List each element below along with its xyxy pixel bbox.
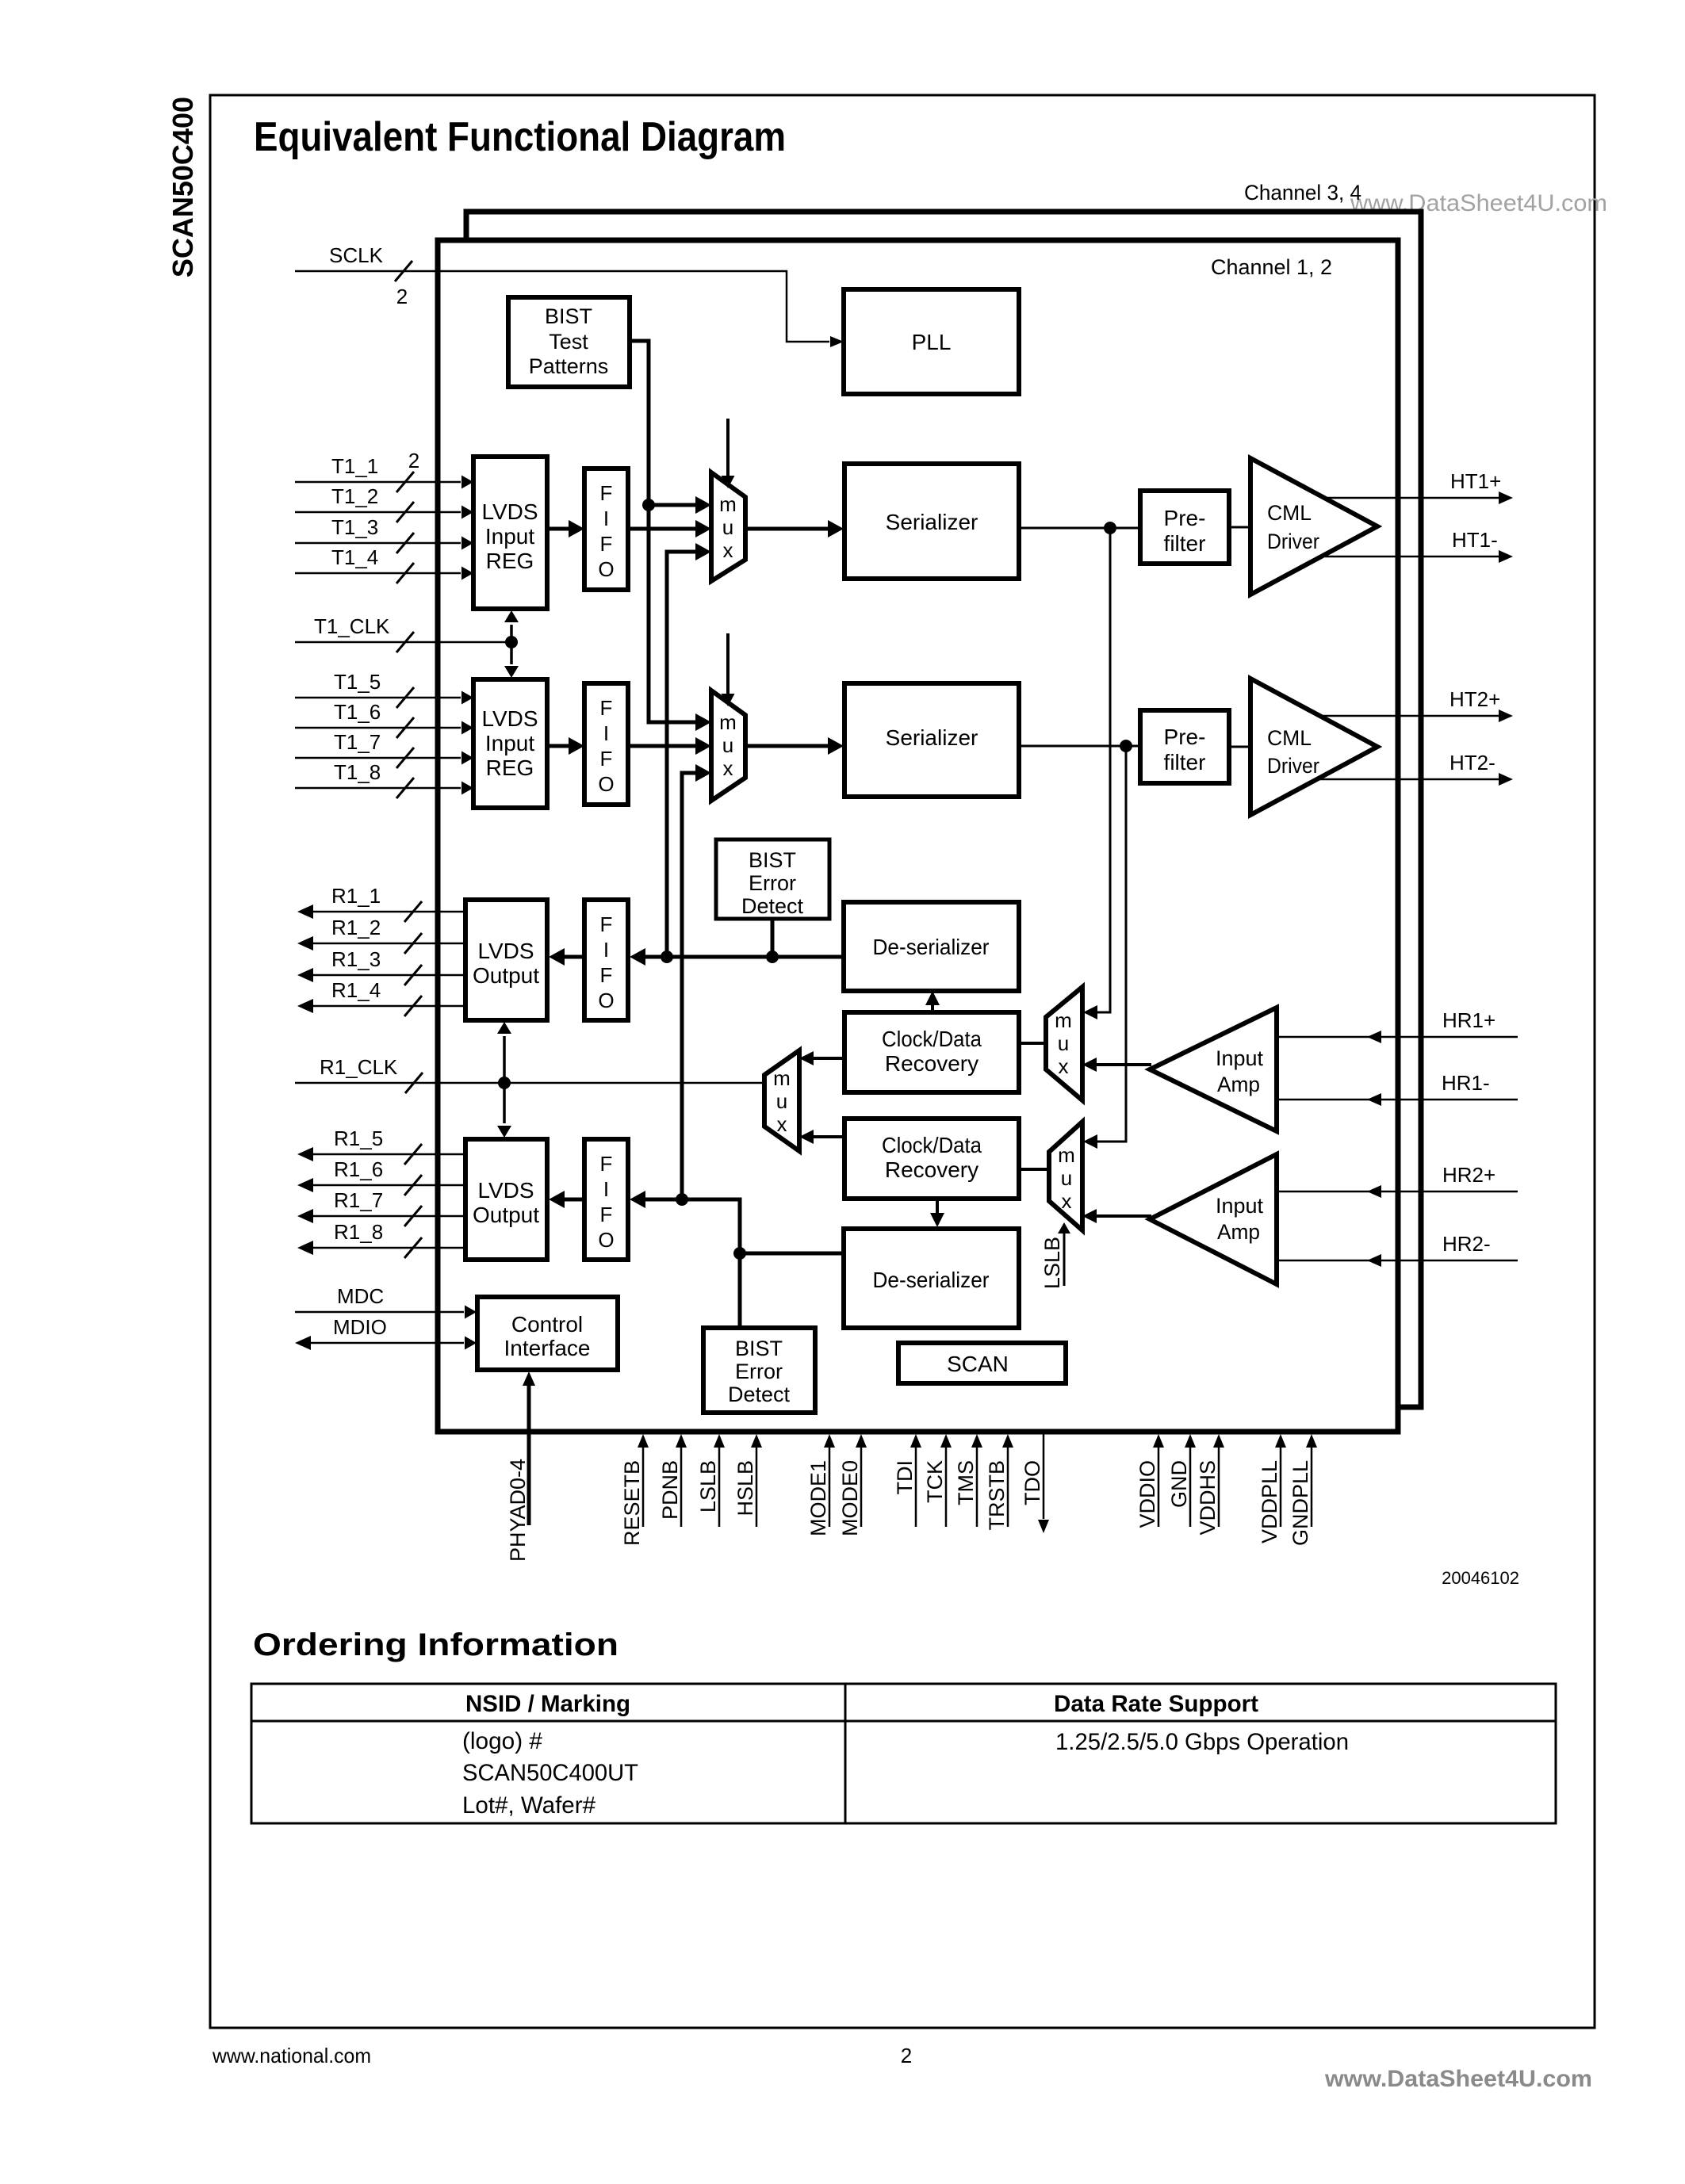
- svg-text:REG: REG: [486, 755, 534, 780]
- svg-text:m: m: [773, 1066, 791, 1090]
- svg-text:R1_8: R1_8: [334, 1220, 383, 1244]
- wire R1_1 output: [312, 911, 465, 913]
- block FIFO4: [584, 1139, 628, 1260]
- pin GND: [1189, 1448, 1192, 1527]
- svg-text:Pre-: Pre-: [1164, 725, 1206, 749]
- svg-text:BIST: BIST: [735, 1337, 783, 1360]
- wire T1_CLK input: [295, 641, 511, 644]
- svg-text:Input: Input: [1216, 1194, 1263, 1218]
- svg-text:PDNB: PDNB: [658, 1460, 682, 1520]
- wire HR1- input: [1277, 1099, 1518, 1101]
- block Clock/Data Recovery 1: [844, 1012, 1019, 1092]
- svg-text:x: x: [777, 1112, 787, 1136]
- wire T1_8 input: [295, 787, 461, 790]
- wire R1_CLK with clock mux5: [295, 1082, 764, 1084]
- wire mux4 to CDR2: [1019, 1168, 1049, 1171]
- svg-text:O: O: [598, 772, 614, 796]
- svg-text:VDDIO: VDDIO: [1135, 1460, 1159, 1528]
- wire T1_CLK vertical to both LVDS input REGs: [510, 625, 513, 664]
- CML Driver 1 triangle: [1250, 458, 1377, 595]
- wire FIFO2 to mux2: [628, 744, 698, 748]
- pin TMS: [976, 1448, 978, 1527]
- svg-text:Input: Input: [485, 524, 534, 549]
- svg-text:Lot#, Wafer#: Lot#, Wafer#: [462, 1792, 595, 1819]
- svg-text:R1_4: R1_4: [331, 978, 381, 1002]
- svg-text:I: I: [603, 721, 609, 745]
- ordering table frame: [251, 1684, 1556, 1823]
- svg-text:HT2+: HT2+: [1449, 687, 1500, 711]
- block LVDS Output 1: [465, 900, 547, 1020]
- pin TDO output: [1043, 1434, 1045, 1519]
- pin RESETB: [642, 1448, 645, 1527]
- wire loopback deser1 to mux1 third input: [667, 552, 698, 957]
- svg-text:Output: Output: [473, 1203, 539, 1227]
- svg-text:HSLB: HSLB: [733, 1460, 757, 1517]
- wire Pre-filter1 to CML driver1: [1229, 526, 1250, 529]
- svg-text:Test: Test: [549, 330, 588, 354]
- svg-text:u: u: [1061, 1166, 1072, 1190]
- block Control Interface: [477, 1297, 618, 1370]
- svg-text:www.DataSheet4U.com: www.DataSheet4U.com: [1324, 2066, 1592, 2092]
- svg-text:T1_5: T1_5: [334, 670, 381, 694]
- wire mux1 select from above: [726, 419, 730, 476]
- block LVDS Input REG 1: [473, 457, 547, 609]
- wire T1_1 input: [295, 481, 461, 484]
- wire R1_5 output: [312, 1153, 465, 1156]
- wire CDR1 output to clock mux5: [814, 1057, 844, 1060]
- wire mux3 to CDR1: [1019, 1042, 1046, 1045]
- svg-text:I: I: [603, 938, 609, 962]
- wire T1_6 input: [295, 727, 461, 729]
- svg-text:(logo) #: (logo) #: [462, 1728, 542, 1754]
- svg-text:Serializer: Serializer: [886, 510, 978, 534]
- svg-text:F: F: [600, 912, 613, 936]
- svg-text:Recovery: Recovery: [885, 1157, 978, 1182]
- svg-text:T1_8: T1_8: [334, 760, 381, 784]
- svg-text:R1_3: R1_3: [331, 947, 381, 971]
- svg-text:Clock/Data: Clock/Data: [882, 1133, 982, 1157]
- svg-text:Ordering Information: Ordering Information: [253, 1627, 618, 1662]
- svg-text:F: F: [600, 532, 613, 556]
- junction deser1 to BIST error detect: [766, 950, 779, 963]
- wire T1_5 input: [295, 697, 461, 699]
- svg-text:Detect: Detect: [728, 1383, 791, 1406]
- pin TCK: [945, 1448, 948, 1527]
- pin GNDPLL: [1311, 1448, 1313, 1527]
- wire BIST Error Detect1 tap: [771, 919, 775, 957]
- wire PHYAD0-4 input to Control Interface: [527, 1384, 531, 1525]
- svg-text:SCAN50C400UT: SCAN50C400UT: [462, 1760, 638, 1786]
- svg-text:x: x: [723, 538, 733, 562]
- wire LVDS REG2 to FIFO2: [547, 744, 572, 748]
- svg-text:Detect: Detect: [741, 894, 804, 918]
- junction T1_CLK: [505, 636, 518, 648]
- wire HT2- output: [1316, 778, 1499, 781]
- svg-text:u: u: [1058, 1031, 1069, 1055]
- svg-text:F: F: [600, 696, 613, 720]
- svg-text:HR2+: HR2+: [1442, 1163, 1495, 1187]
- svg-text:m: m: [719, 710, 737, 734]
- svg-text:Data Rate Support: Data Rate Support: [1054, 1691, 1258, 1717]
- svg-text:F: F: [600, 1203, 613, 1226]
- svg-text:Clock/Data: Clock/Data: [882, 1027, 982, 1051]
- slash bus mark SCLK: [395, 261, 412, 281]
- svg-text:Equivalent Functional Diagram: Equivalent Functional Diagram: [254, 114, 786, 160]
- wire Input Amp1 to mux3: [1097, 1063, 1151, 1066]
- Input Amp 2 triangle: [1150, 1154, 1277, 1284]
- svg-text:LSLB: LSLB: [1040, 1237, 1064, 1289]
- svg-text:O: O: [598, 1228, 614, 1252]
- block FIFO3: [584, 900, 628, 1020]
- pin TDI: [915, 1448, 917, 1527]
- block FIFO2: [584, 683, 628, 805]
- svg-text:Control: Control: [511, 1312, 583, 1337]
- wire CDR1 up to De-serializer1: [931, 1004, 934, 1012]
- block FIFO1: [584, 469, 628, 590]
- svg-text:F: F: [600, 481, 613, 505]
- junction R1_CLK: [498, 1077, 511, 1089]
- svg-text:m: m: [1058, 1143, 1075, 1167]
- block Serializer 2: [844, 683, 1019, 797]
- svg-text:u: u: [722, 733, 733, 757]
- wire HR1+ input: [1277, 1036, 1518, 1038]
- svg-text:20046102: 20046102: [1442, 1568, 1519, 1588]
- svg-text:CML: CML: [1267, 726, 1312, 750]
- pin HSLB: [756, 1448, 758, 1527]
- block De-serializer 1: [844, 902, 1019, 991]
- svg-text:HR2-: HR2-: [1442, 1232, 1491, 1256]
- svg-text:R1_6: R1_6: [334, 1157, 383, 1181]
- svg-text:TDO: TDO: [1021, 1460, 1044, 1505]
- wire De-serializer2 output jog to FIFO4: [644, 1199, 844, 1253]
- svg-text:TMS: TMS: [954, 1460, 978, 1505]
- wire R1_6 output: [312, 1184, 465, 1187]
- wire Input Amp2 to mux4: [1097, 1214, 1151, 1218]
- svg-text:T1_1: T1_1: [331, 454, 378, 478]
- svg-text:O: O: [598, 557, 614, 581]
- svg-text:Error: Error: [735, 1360, 783, 1383]
- svg-text:R1_7: R1_7: [334, 1188, 383, 1212]
- svg-text:F: F: [600, 747, 613, 771]
- Input Amp 1 triangle: [1150, 1008, 1277, 1131]
- pin VDDPLL: [1280, 1448, 1282, 1527]
- svg-text:HT1-: HT1-: [1452, 528, 1498, 552]
- svg-text:MODE1: MODE1: [806, 1460, 830, 1536]
- wire mux2 select from above: [726, 633, 730, 694]
- wire LSLB select to mux4: [1063, 1234, 1066, 1286]
- wire serializer2 loopback to mux4: [1097, 746, 1126, 1142]
- pin MODE0: [860, 1448, 863, 1527]
- svg-text:Input: Input: [485, 731, 534, 755]
- svg-text:Channel 1, 2: Channel 1, 2: [1211, 255, 1332, 279]
- pin VDDIO: [1158, 1448, 1160, 1527]
- mux M2 transmit channel 2: [711, 690, 745, 801]
- svg-text:Output: Output: [473, 963, 539, 988]
- svg-text:F: F: [600, 963, 613, 987]
- block Clock/Data Recovery 2: [844, 1119, 1019, 1199]
- wire mux1 to Serializer1: [745, 527, 830, 531]
- svg-text:T1_7: T1_7: [334, 730, 381, 754]
- svg-text:Error: Error: [749, 871, 796, 895]
- block LVDS Input REG 2: [473, 679, 547, 808]
- svg-text:T1_3: T1_3: [331, 515, 378, 539]
- wire R1_8 output: [312, 1247, 465, 1249]
- wire R1_CLK vertical to both LVDS Output blocks: [503, 1036, 506, 1123]
- svg-text:TCK: TCK: [923, 1460, 947, 1503]
- svg-text:HR1-: HR1-: [1442, 1071, 1490, 1095]
- wire serializer1 loopback to mux3: [1097, 528, 1110, 1012]
- svg-text:HT2-: HT2-: [1449, 751, 1495, 775]
- svg-text:F: F: [600, 1152, 613, 1176]
- page border frame: [210, 95, 1595, 2028]
- svg-text:PLL: PLL: [912, 330, 952, 354]
- svg-text:TDI: TDI: [893, 1460, 917, 1495]
- wire CDR2 down to De-serializer2: [936, 1199, 939, 1214]
- channel 3,4 chip outline box: [466, 212, 1421, 1407]
- svg-text:R1_CLK: R1_CLK: [320, 1055, 398, 1079]
- svg-text:PHYAD0-4: PHYAD0-4: [506, 1459, 530, 1562]
- svg-text:Amp: Amp: [1217, 1073, 1260, 1096]
- svg-text:De-serializer: De-serializer: [873, 1268, 990, 1292]
- svg-text:SCAN50C400: SCAN50C400: [167, 97, 199, 277]
- junction BIST branch: [642, 499, 655, 511]
- block BIST Test Patterns: [508, 297, 630, 387]
- wire R1_7 output: [312, 1215, 465, 1218]
- svg-text:I: I: [603, 507, 609, 530]
- svg-text:Driver: Driver: [1267, 530, 1319, 553]
- svg-text:2: 2: [396, 285, 408, 308]
- svg-text:x: x: [1059, 1054, 1069, 1078]
- svg-text:T1_4: T1_4: [331, 545, 378, 569]
- pin LSLB: [718, 1448, 721, 1527]
- svg-text:LSLB: LSLB: [696, 1460, 720, 1513]
- svg-text:REG: REG: [486, 549, 534, 573]
- wire HR2- input: [1277, 1260, 1518, 1262]
- svg-text:T1_2: T1_2: [331, 484, 378, 508]
- channel 1,2 chip outline box: [438, 240, 1398, 1432]
- junction serializer1 output: [1104, 522, 1116, 534]
- svg-text:SCLK: SCLK: [329, 243, 384, 267]
- svg-text:Input: Input: [1216, 1046, 1263, 1070]
- pin VDDHS: [1218, 1448, 1220, 1527]
- wire Serializer1 to Pre-filter1: [1019, 527, 1140, 530]
- svg-text:T1_6: T1_6: [334, 700, 381, 724]
- junction deser2 output to BIST error detect 2: [733, 1247, 746, 1260]
- svg-text:Pre-: Pre-: [1164, 506, 1206, 530]
- svg-text:TRSTB: TRSTB: [985, 1460, 1009, 1531]
- svg-text:Interface: Interface: [504, 1336, 591, 1360]
- svg-text:GNDPLL: GNDPLL: [1289, 1460, 1312, 1546]
- wire T1_2 input: [295, 511, 461, 514]
- svg-text:Amp: Amp: [1217, 1220, 1260, 1244]
- block De-serializer 2: [844, 1229, 1019, 1328]
- svg-text:I: I: [603, 1177, 609, 1201]
- block SCAN: [898, 1343, 1066, 1383]
- wire mux2 to Serializer2: [745, 744, 830, 748]
- wire HT1- output: [1325, 556, 1499, 558]
- svg-text:Driver: Driver: [1267, 754, 1319, 778]
- wire FIFO1 to mux1: [628, 527, 698, 531]
- wire LVDS REG1 to FIFO1: [547, 527, 572, 531]
- svg-text:www.national.com: www.national.com: [212, 2044, 371, 2067]
- svg-text:HT1+: HT1+: [1450, 469, 1501, 493]
- junction deser1 loopback: [661, 950, 673, 963]
- svg-text:MDC: MDC: [337, 1284, 384, 1308]
- svg-text:RESETB: RESETB: [620, 1460, 644, 1546]
- svg-text:MDIO: MDIO: [333, 1315, 387, 1339]
- svg-text:Channel 3, 4: Channel 3, 4: [1244, 181, 1361, 205]
- pin PDNB: [680, 1448, 683, 1527]
- block BIST Error Detect 1: [716, 840, 829, 919]
- pin MODE1: [829, 1448, 831, 1527]
- junction deser2 loopback: [676, 1193, 688, 1206]
- wire branch BIST to mux1 input: [649, 503, 698, 507]
- wire R1_4 output: [312, 1005, 465, 1008]
- wire HT1+ output: [1323, 497, 1499, 499]
- svg-text:BIST: BIST: [749, 848, 796, 872]
- wire T1_7 input: [295, 757, 461, 759]
- svg-text:R1_2: R1_2: [331, 916, 381, 939]
- wire FIFO3 to LVDS Output1: [563, 955, 584, 959]
- svg-text:GND: GND: [1167, 1460, 1191, 1508]
- svg-text:LVDS: LVDS: [477, 939, 534, 963]
- svg-text:Recovery: Recovery: [885, 1051, 978, 1076]
- svg-text:HR1+: HR1+: [1442, 1008, 1495, 1032]
- ordering table column divider: [844, 1684, 847, 1823]
- svg-text:filter: filter: [1164, 531, 1206, 556]
- wire R1_3 output: [312, 974, 465, 977]
- wire Pre-filter2 to CML driver2: [1229, 746, 1250, 748]
- wire Serializer2 to Pre-filter2: [1019, 745, 1140, 748]
- wire SCLK input to PLL: [295, 271, 829, 342]
- svg-text:BIST: BIST: [545, 304, 592, 328]
- CML Driver 2 triangle: [1250, 679, 1377, 815]
- svg-text:Patterns: Patterns: [529, 354, 609, 378]
- wire HT2+ output: [1316, 715, 1499, 717]
- wire De-serializer1 output to FIFO3: [644, 955, 844, 959]
- svg-text:SCAN: SCAN: [947, 1352, 1009, 1376]
- block LVDS Output 2: [465, 1139, 547, 1260]
- wire MDC input: [295, 1311, 464, 1314]
- mux M3 receive channel 1: [1046, 987, 1082, 1100]
- wire BIST Error Detect2 tap: [738, 1253, 742, 1329]
- svg-text:2: 2: [901, 2044, 912, 2067]
- block Pre-filter 2: [1140, 710, 1229, 783]
- svg-text:2: 2: [408, 449, 419, 472]
- wire MDIO bidirectional: [309, 1342, 464, 1344]
- svg-text:VDDPLL: VDDPLL: [1258, 1460, 1281, 1543]
- wire FIFO4 to LVDS Output2: [563, 1198, 584, 1202]
- block BIST Error Detect 2: [703, 1328, 815, 1413]
- svg-text:Serializer: Serializer: [886, 725, 978, 750]
- svg-text:CML: CML: [1267, 501, 1312, 525]
- svg-text:VDDHS: VDDHS: [1196, 1460, 1220, 1536]
- block PLL U-PLL: [844, 289, 1019, 394]
- svg-text:1.25/2.5/5.0 Gbps Operation: 1.25/2.5/5.0 Gbps Operation: [1055, 1729, 1349, 1755]
- wire loopback deser2 to mux2 third input: [682, 773, 698, 1199]
- wire R1_2 output: [312, 943, 465, 945]
- block Serializer 1: [844, 464, 1019, 579]
- pin TRSTB: [1007, 1448, 1009, 1527]
- svg-text:R1_1: R1_1: [331, 884, 381, 908]
- svg-text:x: x: [1062, 1189, 1072, 1213]
- svg-text:m: m: [719, 492, 737, 516]
- mux M4 receive channel 2: [1049, 1122, 1082, 1230]
- svg-text:LVDS: LVDS: [481, 499, 538, 524]
- svg-text:u: u: [776, 1089, 787, 1113]
- wire HR2+ input: [1277, 1191, 1518, 1193]
- svg-text:LVDS: LVDS: [481, 706, 538, 731]
- svg-text:O: O: [598, 989, 614, 1012]
- clock mux M5: [764, 1050, 799, 1151]
- wire T1_4 input: [295, 572, 461, 575]
- svg-text:MODE0: MODE0: [838, 1460, 862, 1536]
- junction serializer2 output: [1120, 740, 1132, 752]
- wire T1_3 input: [295, 542, 461, 545]
- wire CDR2 output to clock mux5: [814, 1135, 844, 1138]
- svg-text:m: m: [1055, 1008, 1072, 1032]
- svg-text:NSID / Marking: NSID / Marking: [465, 1691, 630, 1717]
- wire BIST test pattern bus to mux1 and mux2: [630, 341, 698, 722]
- svg-text:u: u: [722, 515, 733, 539]
- mux M1 transmit channel 1: [711, 472, 745, 581]
- ordering table header separator: [251, 1720, 1556, 1723]
- svg-text:T1_CLK: T1_CLK: [314, 614, 390, 638]
- svg-text:De-serializer: De-serializer: [873, 935, 990, 959]
- svg-text:LVDS: LVDS: [477, 1178, 534, 1203]
- svg-text:filter: filter: [1164, 750, 1206, 775]
- block Pre-filter 1: [1140, 491, 1229, 564]
- svg-text:R1_5: R1_5: [334, 1126, 383, 1150]
- svg-text:x: x: [723, 756, 733, 780]
